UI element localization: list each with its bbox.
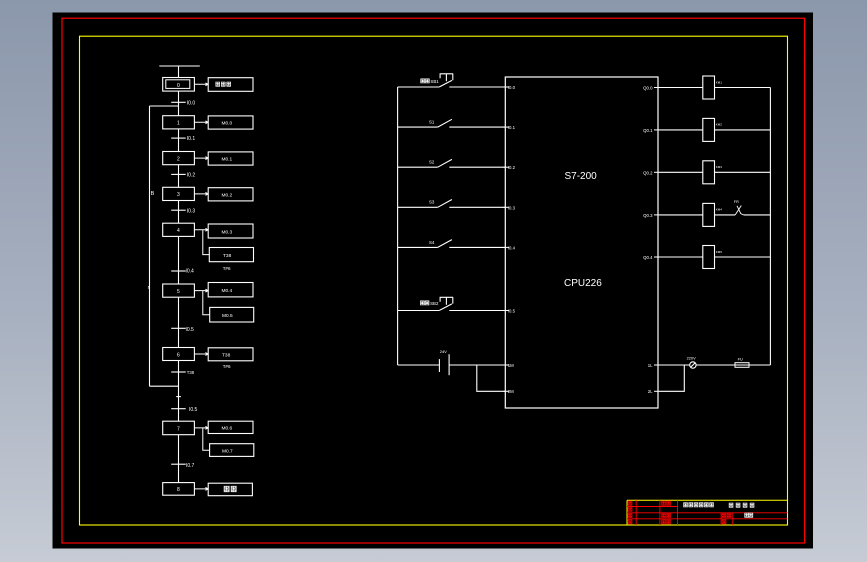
pushbutton SB1 row <box>398 74 506 87</box>
svg-text:2M: 2M <box>508 389 514 394</box>
svg-text:SB1: SB1 <box>430 79 439 84</box>
svg-text:4: 4 <box>177 228 180 234</box>
svg-text:I0.4: I0.4 <box>508 245 516 250</box>
svg-text:7: 7 <box>177 426 180 432</box>
step S1 <box>163 116 195 129</box>
svg-text:5: 5 <box>177 289 180 295</box>
pin 2M <box>504 390 510 392</box>
coil KM5 row <box>660 246 771 269</box>
coil KM4 row with FR contact <box>660 203 771 226</box>
wire: S5 to actions with branch <box>194 289 208 292</box>
coil KM3 row <box>660 161 771 184</box>
svg-text:1: 1 <box>177 121 180 127</box>
action box A5a M0.4 <box>208 283 253 297</box>
switch S2 row <box>398 159 506 167</box>
step S8 <box>163 483 195 496</box>
action box A7a M0.6 <box>208 421 253 433</box>
SFC top rail <box>159 65 200 67</box>
contact FR <box>735 206 743 215</box>
transition I0.2 tick <box>171 173 186 175</box>
pin Q0.0 <box>654 87 660 89</box>
pin 2L <box>654 390 660 392</box>
svg-text:Q0.0: Q0.0 <box>643 86 653 91</box>
svg-text:S7-200: S7-200 <box>565 171 598 182</box>
svg-text:I0.5: I0.5 <box>186 327 195 333</box>
pin 1M <box>504 364 510 366</box>
wire battery branch to 2M <box>477 365 506 391</box>
transition I0.0 tick <box>171 101 186 103</box>
svg-text:T#6: T#6 <box>223 364 231 369</box>
fuse FU <box>735 363 770 368</box>
wire: rail to step0 <box>178 66 180 78</box>
title block frame <box>627 500 788 525</box>
action box A4b T38 <box>209 248 253 262</box>
wire 2L loop <box>660 365 685 391</box>
pin Q0.3 <box>654 214 660 216</box>
svg-text:FU: FU <box>738 356 743 361</box>
step S2 <box>163 152 195 165</box>
label 停止SB2 <box>420 301 429 305</box>
svg-text:I0.5: I0.5 <box>189 407 198 413</box>
action box A4a M0.3 <box>208 224 253 238</box>
svg-text:SB2: SB2 <box>430 301 439 306</box>
switch S4 row <box>398 240 506 248</box>
feedback wire top segment <box>150 105 179 107</box>
transition I0.1 tick <box>171 137 186 139</box>
coil KM1 row <box>660 76 771 99</box>
pin I0.0 <box>504 86 510 88</box>
PLC U1 S7-200 CPU226 <box>505 77 658 408</box>
transition I0.7 tick <box>171 463 186 465</box>
svg-text:I0.3: I0.3 <box>187 208 196 214</box>
svg-text:1M: 1M <box>508 363 514 368</box>
svg-text:2L: 2L <box>648 389 653 394</box>
action box A5b M0.5 <box>210 307 254 322</box>
lamp HL row <box>660 362 736 368</box>
svg-text:M0.7: M0.7 <box>222 449 233 455</box>
svg-text:Q0.2: Q0.2 <box>643 170 653 175</box>
svg-text:M0.2: M0.2 <box>222 193 233 199</box>
svg-text:M0.6: M0.6 <box>222 426 233 432</box>
pin I0.1 <box>504 126 510 128</box>
wire: S0 to action <box>194 83 208 86</box>
pin I0.4 <box>504 246 510 248</box>
transition I0.4 tick <box>171 270 186 272</box>
action box A0 初始化 <box>208 78 253 92</box>
svg-text:T#6: T#6 <box>223 266 231 271</box>
svg-text:M0.4: M0.4 <box>222 288 233 294</box>
step S5 <box>163 284 195 297</box>
output right bus <box>769 88 771 366</box>
pin Q0.2 <box>654 171 660 173</box>
title block red row labels <box>628 501 731 524</box>
svg-text:M0.5: M0.5 <box>222 313 233 319</box>
svg-text:T38: T38 <box>187 370 195 375</box>
svg-text:6: 6 <box>177 352 180 358</box>
svg-text:KM4: KM4 <box>716 208 723 212</box>
svg-text:S2: S2 <box>429 160 435 165</box>
svg-text:I0.4: I0.4 <box>186 268 195 274</box>
svg-text:24V: 24V <box>440 349 447 354</box>
coil KM2 row <box>660 118 771 141</box>
wire: S4 to actions with branch <box>194 228 208 231</box>
pin Q0.4 <box>654 256 660 258</box>
action box A7b M0.7 <box>210 444 254 457</box>
svg-text:I0.0: I0.0 <box>187 100 196 106</box>
svg-text:CPU226: CPU226 <box>564 278 602 289</box>
svg-text:I0.0: I0.0 <box>508 85 516 90</box>
svg-text:FR: FR <box>734 200 739 204</box>
wire: S7 to actions with branch <box>194 427 208 430</box>
svg-text:0: 0 <box>177 83 180 89</box>
svg-text:M0.3: M0.3 <box>222 229 233 235</box>
svg-text:S4: S4 <box>429 240 435 245</box>
svg-text:M0.0: M0.0 <box>222 121 233 127</box>
svg-text:KM2: KM2 <box>716 123 723 127</box>
SFC main flow line <box>178 91 180 483</box>
svg-text:3: 3 <box>177 192 180 198</box>
svg-text:Q0.1: Q0.1 <box>643 128 653 133</box>
svg-text:I0.2: I0.2 <box>187 173 196 179</box>
pin Q0.1 <box>654 129 660 131</box>
PLC input pins <box>504 87 510 391</box>
svg-text:8: 8 <box>177 487 180 493</box>
svg-text:Q0.3: Q0.3 <box>643 213 653 218</box>
svg-text:S3: S3 <box>429 200 435 205</box>
svg-text:KM5: KM5 <box>716 250 723 254</box>
svg-text:T38: T38 <box>222 353 231 359</box>
wire: S8 to action <box>194 488 208 491</box>
svg-text:T38: T38 <box>223 253 232 259</box>
feedback wire bottom segment <box>150 385 179 387</box>
svg-text:I0.1: I0.1 <box>508 125 516 130</box>
svg-text:S1: S1 <box>429 120 435 125</box>
action box A8 停止 <box>208 483 252 496</box>
title block red grid <box>627 500 788 525</box>
svg-text:KM3: KM3 <box>716 165 723 169</box>
action box A6 T38 <box>208 348 253 361</box>
svg-text:1L: 1L <box>648 363 653 368</box>
step S6 <box>163 348 195 361</box>
svg-text:2: 2 <box>177 156 180 162</box>
svg-text:220V: 220V <box>687 355 696 360</box>
step S4 <box>163 223 195 236</box>
pushbutton SB2 row <box>398 297 506 310</box>
svg-text:M0.1: M0.1 <box>222 157 233 163</box>
svg-text:I0.3: I0.3 <box>508 205 516 210</box>
label 启动SB1 <box>421 79 430 83</box>
wire: S3 to action <box>194 193 208 196</box>
title text 设计图 white <box>684 503 754 518</box>
action box A1 M0.0 <box>208 116 253 129</box>
svg-text:I0.2: I0.2 <box>508 165 516 170</box>
svg-text:I0.5: I0.5 <box>508 309 516 314</box>
junction tick <box>176 396 181 398</box>
transition I0.5 tick <box>171 327 186 329</box>
action box A2 M0.1 <box>208 152 253 165</box>
PLC output pins <box>654 88 660 392</box>
transition I0.3 tick <box>171 209 186 211</box>
switch S3 row <box>398 200 506 208</box>
action box A3 M0.2 <box>208 188 253 201</box>
svg-text:I0.7: I0.7 <box>186 463 195 469</box>
transition labels <box>186 100 198 469</box>
pin 1L <box>654 364 660 366</box>
svg-text:KM1: KM1 <box>716 80 723 84</box>
svg-text:Q0.4: Q0.4 <box>643 255 653 260</box>
switch S1 row <box>398 119 506 127</box>
wire: S1 to action <box>194 121 208 124</box>
feedback wire vertical <box>149 106 151 386</box>
step S0 (initial, double box) <box>163 78 195 92</box>
svg-text:I0.1: I0.1 <box>187 136 196 142</box>
wire: S2 to action <box>194 157 208 160</box>
step S3 <box>163 187 195 200</box>
pin I0.2 <box>504 166 510 168</box>
transition T38 tick <box>171 371 186 373</box>
battery G1 24V <box>398 354 506 375</box>
transition I0.6 tick <box>171 408 186 410</box>
pin I0.5 <box>504 310 510 312</box>
step S7 <box>163 421 195 435</box>
wire: S6 to action <box>194 353 208 356</box>
pin I0.3 <box>504 206 510 208</box>
input left bus <box>397 87 399 365</box>
svg-text:B: B <box>151 191 155 197</box>
yellow border frame <box>80 36 788 525</box>
